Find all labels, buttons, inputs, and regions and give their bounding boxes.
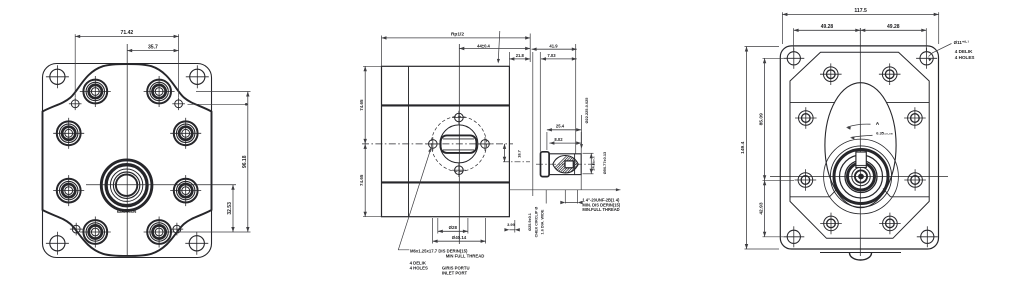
corner mounting hole RC3 [787, 230, 800, 243]
shaft body [549, 154, 581, 175]
front flange outline [780, 46, 938, 249]
drive shaft: boss ring [824, 139, 899, 214]
dim Ø28 [438, 230, 468, 232]
svg-text:21.8: 21.8 [516, 53, 525, 58]
assembly bolt hole LB7 [83, 220, 107, 244]
bearing ring [845, 161, 877, 193]
svg-text:A: A [876, 121, 880, 127]
casting profile outline [43, 64, 212, 256]
left view: pump rear cover plate [43, 30, 251, 257]
vertical centerline [126, 44, 128, 256]
rotation arrow A [848, 124, 871, 127]
svg-text:Ø22.225-0.025: Ø22.225-0.025 [584, 97, 589, 124]
corner mounting hole RC1 [787, 52, 800, 65]
port screw hole M2 [455, 166, 464, 175]
gear chamber oval boss [825, 83, 896, 208]
flange step line [408, 66, 410, 216]
bottom port arc [850, 253, 872, 260]
dim 24.6 right [583, 152, 594, 154]
svg-text:44±0.4: 44±0.4 [477, 44, 490, 49]
ext lines for Ø40.14 [432, 218, 434, 244]
assembly bolt hole LB5 [57, 179, 81, 203]
dim 8.02 [549, 142, 581, 144]
ext line x=575.7 [575, 44, 577, 154]
ext x=581.2 [580, 132, 582, 190]
dim 18.7 [504, 144, 506, 162]
svg-text:MIN FULL THREAD: MIN FULL THREAD [446, 253, 485, 258]
shaft centerline [536, 163, 596, 165]
shaft ring dark [848, 163, 875, 190]
assembly bolt hole RB2 [882, 67, 897, 82]
svg-text:Ø50.77±0.13: Ø50.77±0.13 [602, 151, 607, 174]
assembly bolt hole RB8 [883, 216, 898, 231]
seal ring inner [840, 155, 883, 198]
svg-text:4 DELIK: 4 DELIK [955, 49, 973, 54]
dim Rp1/2 [382, 37, 531, 39]
flange face octagon [790, 52, 929, 238]
svg-text:Rp1/2: Rp1/2 [451, 32, 464, 38]
svg-text:96.18: 96.18 [242, 155, 248, 168]
assembly bolt hole RB3 [799, 111, 814, 126]
UNF leader line [510, 189, 621, 191]
svg-text:32.53: 32.53 [227, 202, 233, 215]
side port centerline [503, 161, 530, 163]
horizontal centerline [362, 143, 513, 145]
svg-text:Ø40.14: Ø40.14 [452, 235, 467, 240]
extension line bottom bolts right [176, 231, 251, 233]
svg-text:42.93: 42.93 [759, 202, 765, 215]
svg-text:25.4: 25.4 [556, 123, 565, 128]
dim 96.18 [247, 92, 249, 233]
corner mounting hole LC2 [190, 69, 205, 84]
corner mounting hole LC1 [50, 69, 65, 84]
svg-text:74.65: 74.65 [359, 174, 364, 186]
assembly bolt hole RB7 [824, 216, 839, 231]
svg-text:6.35₊₀.₀₈: 6.35₊₀.₀₈ [876, 130, 893, 135]
ext line x=530 [529, 34, 531, 63]
extension line top bolts right [196, 91, 251, 93]
port screw hole M1 [455, 113, 464, 122]
seal ring outer [830, 146, 891, 207]
middle view: pump side / port face section [359, 31, 577, 275]
svg-text:71.42: 71.42 [121, 30, 134, 36]
lower waist line right [891, 196, 930, 198]
svg-text:MIN.FULL THREAD: MIN.FULL THREAD [582, 207, 619, 212]
shaft center dot [859, 174, 864, 179]
keyway slot [856, 152, 866, 168]
circlip groove ext lines [545, 190, 547, 204]
rear flange plate outline [43, 64, 212, 258]
dim 117.5 [782, 13, 938, 15]
horizontal centerline [770, 176, 948, 178]
waist line right [887, 101, 930, 103]
dim 49.28 right [860, 29, 926, 31]
svg-text:7.03: 7.03 [547, 53, 556, 58]
dim 149.4 [746, 47, 748, 250]
port screw hole M3 [429, 140, 438, 149]
svg-text:1.6 DIA. WIDE: 1.6 DIA. WIDE [541, 209, 545, 234]
svg-text:74.65: 74.65 [359, 99, 364, 111]
svg-text:Ø28: Ø28 [449, 225, 458, 230]
ext lines for Ø28 [437, 218, 439, 234]
horizontal centerline through hub [86, 184, 236, 186]
ext line x=532.8 tall [532, 52, 534, 196]
ext lines left dims [745, 46, 780, 48]
svg-text:35.7: 35.7 [148, 44, 158, 50]
ext body top-right corner up [508, 52, 510, 66]
keyway depth arrow 6.35 [852, 135, 873, 137]
svg-text:Ø11⁺⁰·¹: Ø11⁺⁰·¹ [954, 40, 970, 45]
dim 7.03 [541, 58, 577, 60]
leader to top face [498, 31, 500, 62]
svg-text:49.28: 49.28 [821, 24, 834, 30]
svg-text:117.5: 117.5 [854, 8, 867, 14]
woodruff key [565, 161, 573, 168]
corner mounting hole LC3 [50, 236, 65, 251]
corner mounting hole LC4 [189, 236, 204, 251]
waist line left [790, 101, 834, 103]
ext top edge to left [363, 65, 382, 67]
svg-text:Ø25.9±0.1: Ø25.9±0.1 [528, 213, 532, 231]
svg-text:8.02: 8.02 [554, 137, 563, 142]
assembly bolt hole LB2 [147, 80, 171, 104]
dim 42.93 [764, 180, 766, 237]
svg-text:18.7: 18.7 [517, 149, 522, 158]
dim 85.09 [764, 58, 766, 180]
leader Ø11 [929, 44, 952, 57]
corner mounting hole RC2 [920, 52, 933, 65]
dim 74.65 lower [364, 144, 366, 217]
shaft end cap [541, 152, 550, 177]
dim Ø40.14 [433, 240, 486, 242]
shaft bore [852, 167, 870, 185]
assembly bolt hole LB1 [83, 80, 107, 104]
assembly bolt hole LB6 [174, 179, 198, 203]
shaft end detail [510, 97, 621, 238]
right view: pump front flange [740, 8, 975, 260]
inlet port obround inner lines [443, 138, 474, 140]
svg-text:149.4: 149.4 [740, 141, 746, 154]
assembly bolt hole RB5 [798, 173, 813, 188]
lower waist diagonal left [830, 189, 838, 197]
dowel pin LP3 [72, 225, 80, 233]
svg-text:85.09: 85.09 [759, 113, 765, 126]
dowel pin LP1 [71, 100, 79, 108]
svg-text:INLET PORT: INLET PORT [442, 270, 468, 275]
lower waist diagonal right [883, 189, 891, 197]
vertical centerline [458, 44, 460, 244]
dim 41.9 [532, 48, 577, 50]
assembly bolt hole RB4 [908, 111, 923, 126]
dim 25.4 [546, 132, 548, 150]
leader M6 note [398, 147, 431, 250]
svg-text:4 HOLES: 4 HOLES [410, 265, 428, 270]
seal ring dark [834, 150, 888, 204]
extension lines for top dims [74, 34, 76, 97]
assembly bolt hole LB8 [147, 220, 171, 244]
dim 74.65 upper [364, 66, 366, 144]
shaft center ring [855, 170, 867, 182]
central shaft hub [101, 160, 152, 211]
svg-text:41.9: 41.9 [549, 44, 558, 49]
assembly bolt hole RB1 [824, 67, 839, 82]
inlet port obround [441, 135, 477, 153]
vertical centerline [859, 28, 861, 256]
dim 35.7 [127, 50, 178, 52]
assembly bolt hole LB4 [174, 121, 198, 145]
lower waist line left [790, 196, 830, 198]
tapered section (hatched) [553, 156, 579, 173]
dim 21.8 [509, 58, 530, 60]
ext line x=540.3 [539, 52, 541, 152]
svg-text:CHEX CIRCLIP Ø: CHEX CIRCLIP Ø [535, 207, 539, 238]
port screw hole M4 [481, 140, 490, 149]
svg-text:4 HOLES: 4 HOLES [955, 55, 975, 60]
ext lines 49.28 [793, 28, 795, 51]
svg-text:49.28: 49.28 [887, 24, 900, 30]
ext lines 117.5 [781, 12, 783, 44]
ext bottom edge to left [363, 216, 382, 218]
dim 49.28 left [794, 29, 861, 31]
assembly bolt hole LB3 [57, 121, 81, 145]
extension line pin to right [188, 103, 248, 105]
svg-text:3.99: 3.99 [507, 222, 516, 227]
dim 44±0.4 [459, 48, 530, 50]
svg-text:MARZOCCHI: MARZOCCHI [117, 210, 137, 214]
dim 32.53 [232, 185, 234, 232]
port counterbore circle [440, 125, 478, 163]
dowel pin LP2 [175, 100, 183, 108]
ext line body left edge up [381, 36, 383, 67]
port bolt circle (dashed) [431, 116, 486, 171]
dim 71.42 [75, 35, 178, 37]
rear cover parting line [382, 181, 510, 183]
pump body outline [382, 66, 510, 216]
dowel pin LP4 [173, 225, 181, 233]
svg-text:24.6±₀.₅: 24.6±₀.₅ [591, 156, 596, 171]
front cover parting line [382, 104, 510, 106]
corner mounting hole RC4 [921, 230, 934, 243]
assembly bolt hole RB6 [908, 173, 923, 188]
taper end line [574, 154, 576, 175]
bottom step line [820, 252, 901, 254]
